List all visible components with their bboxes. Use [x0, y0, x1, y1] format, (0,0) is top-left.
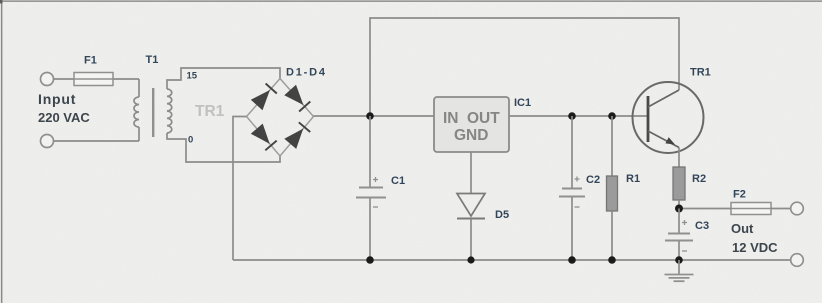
diode D3 bottom-left	[251, 124, 277, 151]
wire primary bottom stub	[138, 127, 140, 141]
diode D4 bottom-right	[284, 122, 310, 149]
node junction ground	[675, 256, 683, 264]
svg-text:TR1: TR1	[195, 103, 225, 120]
output terminal plus	[791, 202, 804, 215]
diode D1 top-left	[251, 84, 277, 111]
top border line	[0, 0, 822, 2]
capacitor C1	[356, 116, 386, 260]
svg-text:R1: R1	[626, 173, 640, 185]
wire secondary 15 to bridge top	[167, 68, 280, 89]
svg-text:15: 15	[187, 71, 198, 82]
node junction C2 bottom	[568, 256, 576, 264]
svg-text:OUT: OUT	[467, 110, 500, 127]
capacitor C3	[665, 209, 693, 261]
svg-text:D5: D5	[495, 209, 509, 221]
wire bottom rail	[233, 259, 791, 261]
node junction C2 top	[568, 112, 576, 120]
node junction R1 bottom	[608, 256, 616, 264]
wire bridge plus to IC1	[314, 115, 435, 117]
svg-text:T1: T1	[146, 54, 159, 66]
svg-text:TR1: TR1	[690, 67, 711, 79]
wire input bottom	[53, 140, 139, 142]
svg-text:R2: R2	[692, 173, 706, 185]
node junction C1 top	[366, 112, 374, 120]
svg-text:GND: GND	[454, 127, 488, 144]
resistor R2	[673, 167, 685, 209]
ground	[665, 260, 694, 281]
wire input top	[53, 78, 139, 80]
node junction C1 bottom	[366, 256, 374, 264]
diode D5	[457, 152, 485, 260]
svg-text:D1-D4: D1-D4	[286, 67, 327, 79]
fuse F2	[731, 203, 771, 215]
svg-text:F2: F2	[733, 189, 746, 201]
svg-text:C1: C1	[391, 175, 405, 187]
svg-text:IC1: IC1	[514, 97, 531, 109]
diode D2 top-right	[284, 85, 310, 112]
svg-text:C2: C2	[586, 174, 600, 186]
svg-text:Input: Input	[38, 91, 76, 107]
top-left corner mark	[0, 0, 3, 4]
wire primary top stub	[138, 79, 140, 97]
wire fuse to out terminal	[771, 208, 791, 210]
resistor R1	[607, 116, 618, 260]
node junction emitter output	[675, 205, 683, 213]
left border line	[1, 0, 3, 303]
svg-text:12 VDC: 12 VDC	[732, 240, 778, 255]
output terminal minus	[791, 254, 804, 267]
input terminal bottom	[41, 135, 54, 148]
fuse F1	[74, 73, 113, 86]
wire bridge minus down to bottom rail	[233, 117, 247, 261]
transformer T1 primary coil	[134, 97, 139, 127]
IC1 voltage regulator box	[434, 97, 509, 152]
svg-text:0: 0	[188, 135, 193, 146]
svg-text:F1: F1	[84, 55, 97, 67]
svg-text:IN: IN	[443, 110, 459, 127]
transformer T1 core	[152, 88, 154, 137]
transistor TR1	[633, 82, 704, 167]
wire IC1 out to transistor base	[509, 115, 648, 117]
capacitor C2	[559, 116, 585, 260]
svg-text:Out: Out	[731, 221, 754, 236]
node junction R1 top	[608, 112, 616, 120]
input terminal top	[41, 73, 54, 86]
bridge rectifier frame	[247, 79, 314, 157]
wire to fuse F2	[683, 208, 731, 210]
node junction D5 bottom	[467, 256, 474, 263]
svg-text:C3: C3	[695, 220, 709, 232]
wire top rail	[370, 18, 679, 116]
svg-text:220 VAC: 220 VAC	[38, 110, 90, 125]
transformer T1 secondary coil	[167, 89, 172, 133]
wire secondary 0 to bridge bottom	[167, 133, 280, 162]
